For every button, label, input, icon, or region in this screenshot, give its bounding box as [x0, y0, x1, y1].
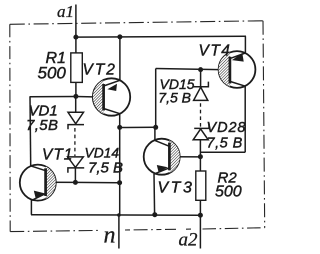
- svg-text:VD14: VD14: [85, 146, 120, 161]
- svg-text:a1: a1: [57, 2, 74, 21]
- svg-text:7,5 В: 7,5 В: [88, 159, 123, 176]
- svg-text:500: 500: [215, 183, 242, 200]
- svg-text:7,5 В: 7,5 В: [207, 136, 243, 152]
- svg-text:7,5 В: 7,5 В: [158, 89, 191, 105]
- svg-text:500: 500: [38, 64, 67, 83]
- svg-text:VD28: VD28: [207, 120, 247, 136]
- svg-text:n: n: [104, 222, 116, 248]
- svg-text:VT2: VT2: [83, 61, 117, 78]
- svg-text:7,5В: 7,5В: [26, 117, 58, 134]
- svg-text:VT4: VT4: [199, 43, 232, 60]
- svg-text:VT3: VT3: [158, 180, 195, 197]
- svg-text:a2: a2: [179, 230, 199, 251]
- svg-text:VT1: VT1: [42, 146, 73, 163]
